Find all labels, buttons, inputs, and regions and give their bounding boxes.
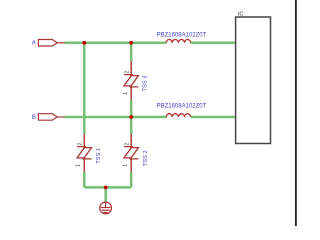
wire net B horizontal left segment [65,116,167,119]
svg-text:1: 1 [123,164,129,167]
TSS3 body [124,75,138,87]
TSS2 body [124,147,138,159]
wire vertical x131 TSS3-to-B [130,100,133,134]
port B [38,114,64,121]
svg-text:IC: IC [238,11,244,17]
svg-text:1: 1 [76,164,82,167]
svg-text:1: 1 [123,92,129,95]
wire ground stub [104,187,107,202]
svg-text:2: 2 [125,142,131,145]
svg-text:B: B [32,114,36,121]
svg-text:2: 2 [125,70,131,73]
svg-text:TSS 3: TSS 3 [143,76,149,92]
svg-text:TSS 1: TSS 1 [96,148,102,164]
IC block [236,17,271,144]
wire net A horizontal left segment [65,42,167,45]
junction dot net A / TSS3 branch [129,41,133,45]
right page border line [295,0,297,226]
TSS1 pins [83,134,85,172]
wire vertical x84 TSS1-to-bottom [83,171,86,187]
svg-text:TSS 2: TSS 2 [143,150,149,166]
junction dot net A / TSS1 branch [82,41,86,45]
svg-text:PBZ1608A102Z0T: PBZ1608A102Z0T [157,32,207,38]
wire vertical x131 TSS2-to-bottom [130,171,133,187]
ground (protective earth) symbol [100,202,112,214]
wire net A horizontal right segment [191,42,236,45]
wire net B horizontal right segment [191,116,236,119]
svg-text:2: 2 [78,142,84,145]
TSS2 pins [130,134,132,172]
junction dot net B / TSS2 branch [129,115,133,119]
inductor L2 PBZ1608A102Z0T (net B) [166,114,190,117]
TSS1 body [77,147,91,159]
TSS3 pins [130,61,132,100]
port A [38,40,64,47]
inductor L1 PBZ1608A102Z0T (net A) [166,39,190,42]
svg-text:PBZ1608A102Z0T: PBZ1608A102Z0T [157,104,207,110]
svg-text:A: A [32,40,37,47]
wire vertical x131 A-to-TSS3 [130,43,133,62]
wire bottom ground bus [84,186,131,189]
wire vertical x84 A-to-TSS1 [83,43,86,134]
junction dot ground bus [104,186,108,190]
